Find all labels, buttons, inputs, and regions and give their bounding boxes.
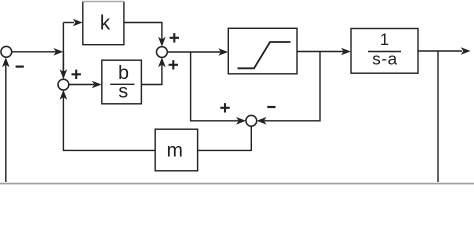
minus sign at S1 bottom input	[16, 65, 24, 67]
summing junction S1	[1, 46, 12, 57]
summing junction S3	[246, 115, 257, 126]
svg-text:1: 1	[380, 31, 389, 49]
arrowhead up into S1 bottom	[2, 57, 10, 67]
svg-text:m: m	[167, 140, 183, 162]
wire: anti-windup branch down then right to S3	[191, 52, 239, 121]
minus sign at S3 right input	[267, 106, 275, 108]
block K	[83, 2, 124, 45]
wire: b/s output right then up into S2 bottom	[141, 65, 162, 85]
arrowhead into plant block	[341, 48, 351, 56]
wire: S3 output down then left into m block	[198, 126, 252, 150]
arrowhead down into S4 top	[60, 69, 68, 79]
plus sign at S3 left input	[220, 103, 229, 112]
arrowhead up into S4 bottom	[60, 90, 68, 100]
block saturation	[228, 28, 297, 74]
wire: S2 output to saturation block	[167, 51, 221, 53]
wire: output feedback tap down	[437, 51, 439, 182]
arrowhead into branch node	[53, 48, 63, 56]
arrowhead up into S2 bottom	[158, 57, 166, 67]
wire: bottom feedback run (faded)	[0, 183, 474, 185]
fraction bar of 1/(s-a)	[368, 51, 401, 53]
svg-text:s: s	[118, 81, 128, 103]
wire: saturation output to plant	[297, 51, 344, 53]
arrowhead into b/s	[92, 81, 102, 89]
saturation curve	[238, 42, 291, 68]
wire: m output left then up into S4 bottom	[63, 97, 155, 150]
wire: plant output to right edge	[418, 50, 462, 52]
wire: branch up to K input	[63, 22, 74, 24]
svg-text:k: k	[100, 11, 111, 34]
svg-text:s-a: s-a	[372, 49, 397, 68]
arrowhead down into S2 top	[158, 37, 166, 47]
output arrowhead	[461, 47, 471, 55]
gray clipped top edge of K	[83, 1, 124, 3]
fraction bar of b/s	[110, 83, 134, 85]
arrowhead into S3 left	[236, 117, 246, 125]
summing junction S4	[58, 79, 69, 90]
wire: K output right then down to S2	[124, 23, 162, 40]
arrowhead into S3 right	[257, 117, 267, 125]
plus sign at S2 top input	[170, 33, 179, 42]
arrowhead into K	[73, 19, 83, 27]
plus sign at S2 bottom input	[169, 60, 178, 69]
plus sign at S4 top input	[72, 70, 81, 79]
block 1/(s-a)	[351, 29, 418, 74]
wire: S1 output to branch node	[11, 51, 56, 53]
arrowhead into saturation block	[218, 48, 228, 56]
wire: S4 output to b/s block	[69, 84, 94, 86]
summing junction S2	[157, 47, 168, 58]
wire: saturation output tap down then left to S3	[264, 52, 321, 121]
block m	[155, 129, 197, 171]
wire: branch down to S4	[62, 52, 64, 71]
node: branch vertical line	[62, 23, 64, 79]
wire: feedback up into S1 bottom	[5, 65, 7, 183]
block b/s	[102, 60, 142, 104]
